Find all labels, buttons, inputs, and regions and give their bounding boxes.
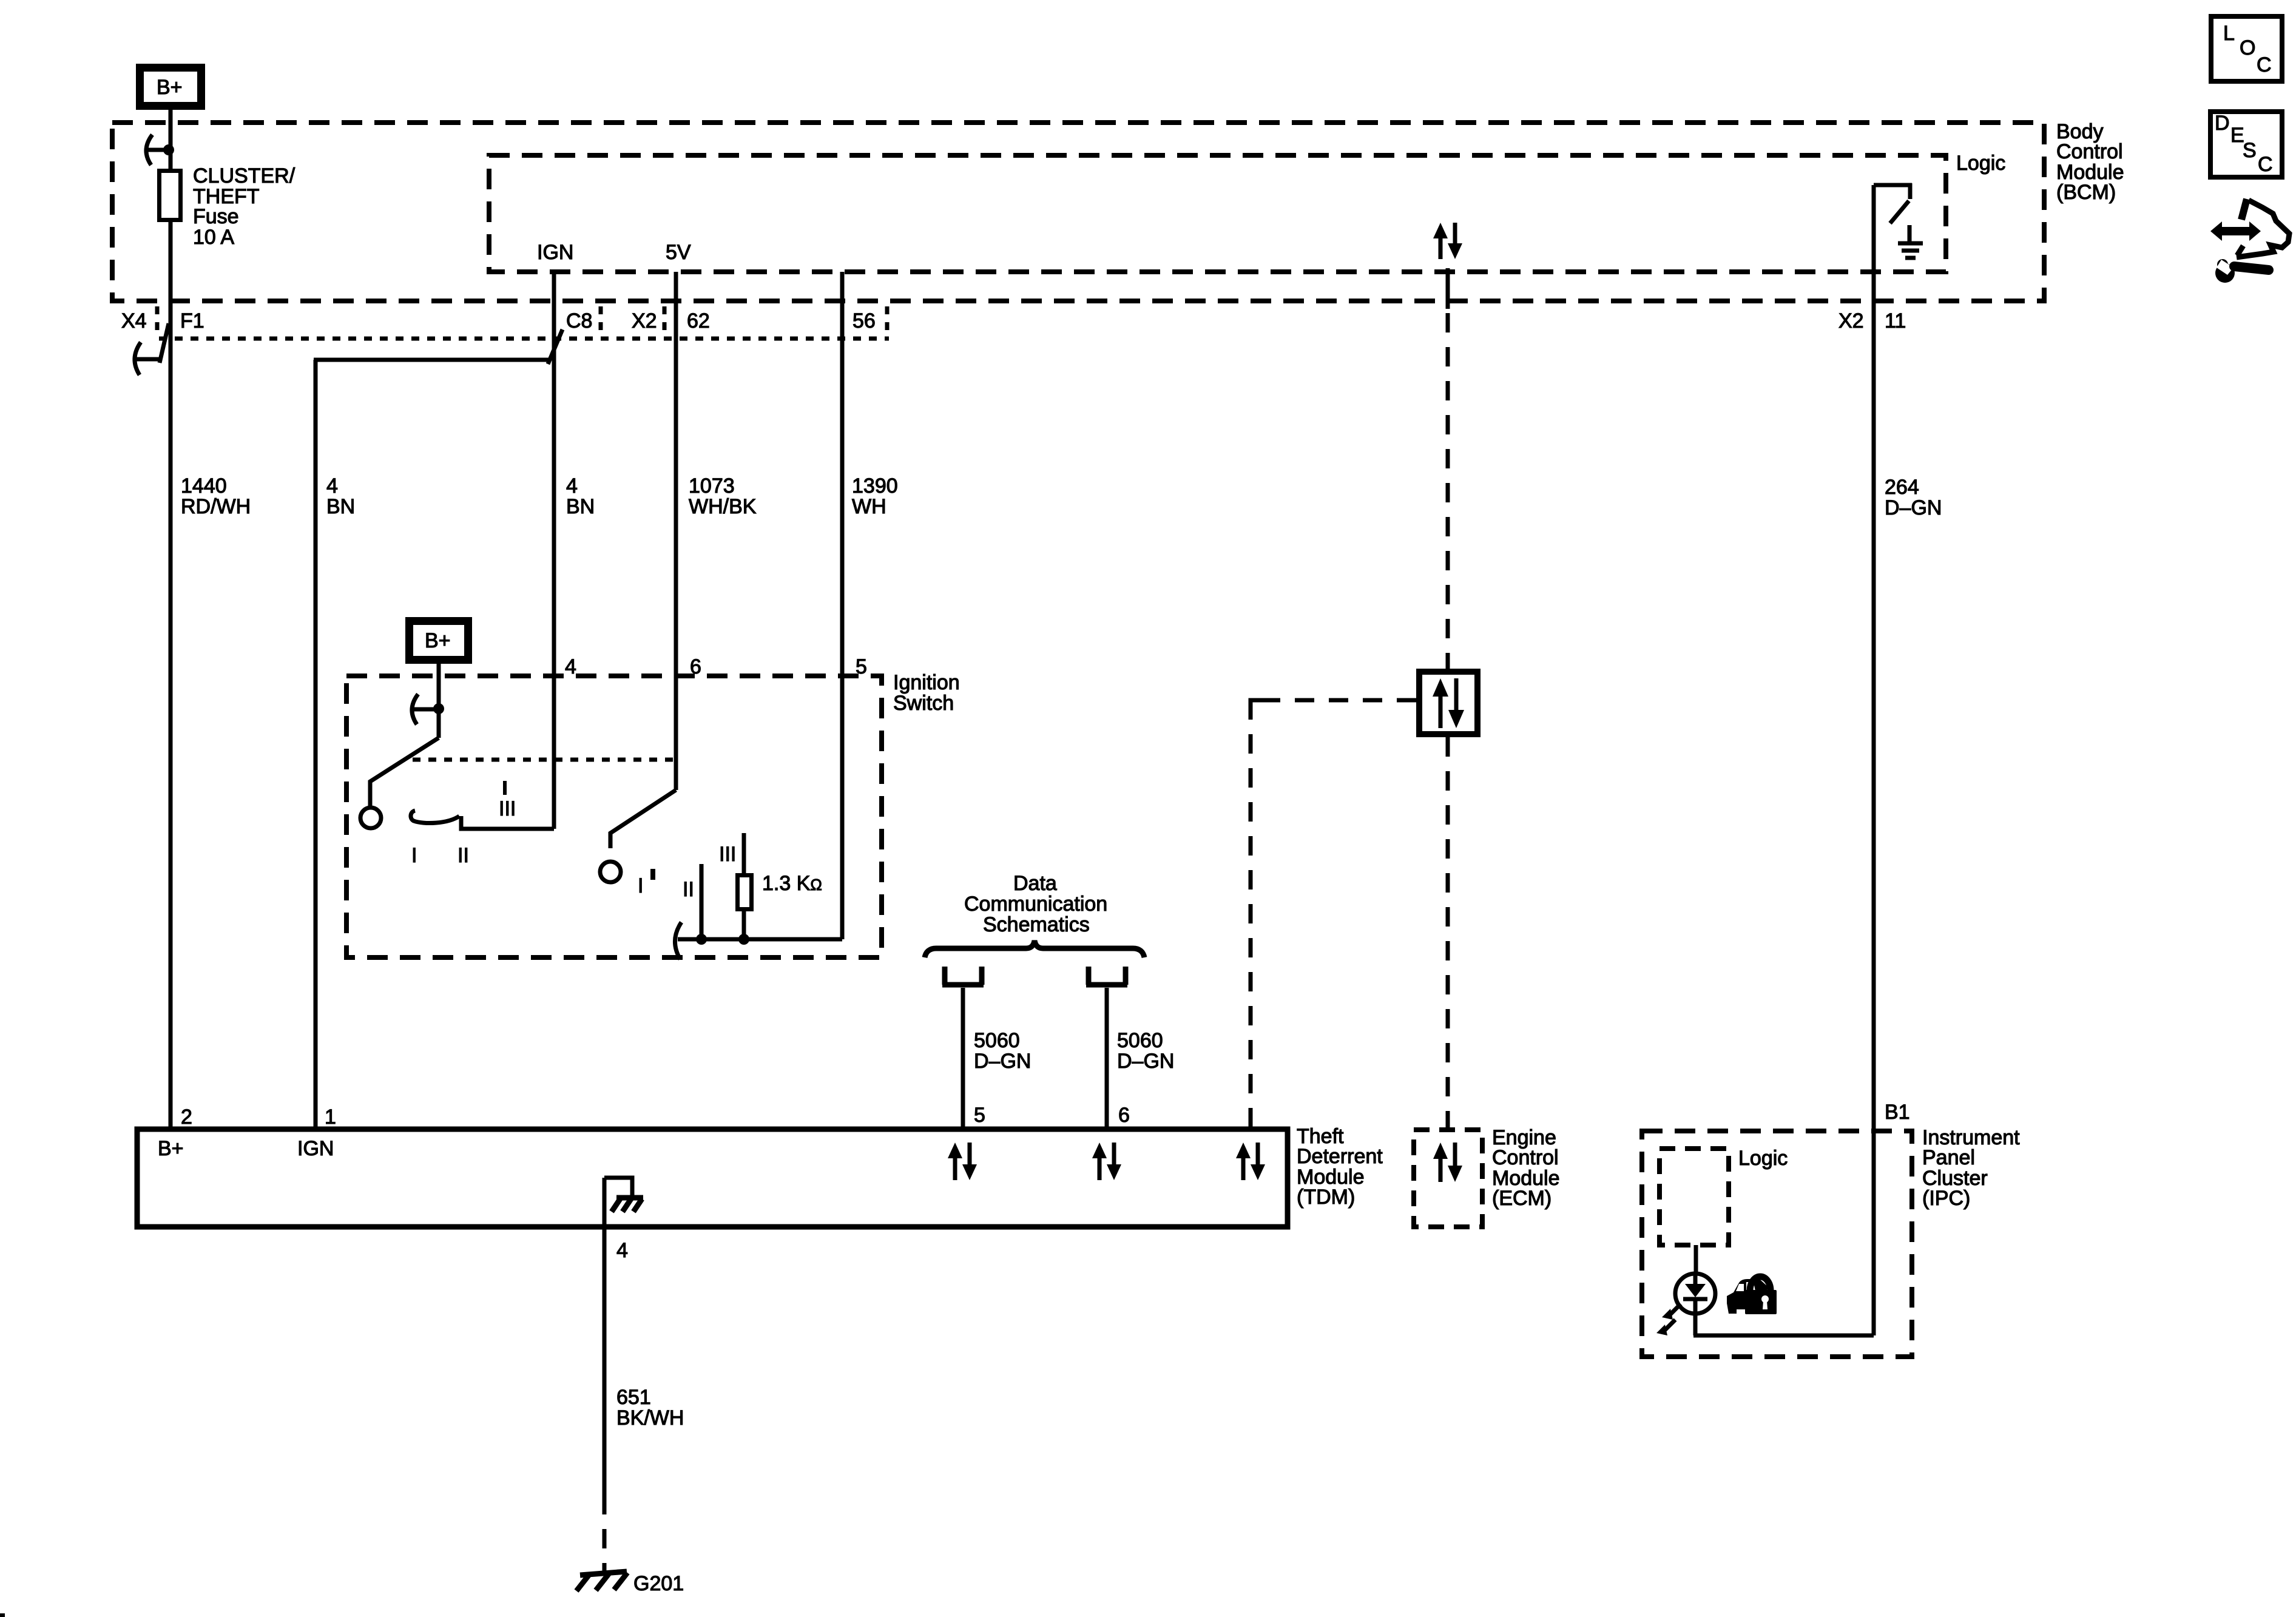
- svg-text:56: 56: [853, 309, 876, 333]
- ground G201: [576, 1571, 627, 1591]
- svg-text:10 A: 10 A: [193, 226, 234, 249]
- Instrument Panel Cluster (IPC) dashed box: [1642, 1131, 1912, 1357]
- mechanical linkage dotted line: [413, 758, 676, 762]
- svg-text:II: II: [458, 844, 469, 867]
- wire position II: [700, 864, 704, 939]
- wire 5060 left to TDM pin 5: [961, 988, 965, 1129]
- svg-text:D–GN: D–GN: [1117, 1050, 1174, 1073]
- svg-text:1390: 1390: [852, 474, 898, 498]
- svg-text:(BCM): (BCM): [2056, 181, 2116, 204]
- svg-text:B+: B+: [425, 629, 451, 652]
- svg-text:(IPC): (IPC): [1922, 1187, 1970, 1210]
- svg-text:IGN: IGN: [297, 1137, 334, 1160]
- position tick (right I): [650, 869, 655, 880]
- wire label 264 D-GN: [1885, 476, 1942, 519]
- wire branch horizontal to TDM pin 1: [314, 358, 549, 362]
- wire serial data branch to TDM (dashed): [1251, 698, 1416, 703]
- svg-text:C: C: [2257, 53, 2272, 76]
- junction dot: [163, 144, 174, 155]
- svg-text:BK/WH: BK/WH: [616, 1406, 684, 1430]
- svg-text:BN: BN: [326, 495, 355, 518]
- label Body Control Module (BCM): [2056, 120, 2124, 204]
- connector separator X4/F1: [155, 306, 160, 336]
- B+ power symbol (top left): [140, 68, 201, 106]
- wire label 5060 D-GN (right): [1117, 1029, 1174, 1073]
- svg-text:B+: B+: [158, 1137, 184, 1160]
- wire B+ into ignition switch: [437, 664, 441, 738]
- BCM connector row dotted line: [159, 337, 889, 341]
- wire gateway to ECM (dashed): [1446, 737, 1450, 1130]
- svg-text:IGN: IGN: [537, 241, 573, 264]
- DESC navigation box: [2210, 112, 2282, 177]
- svg-text:CLUSTER/: CLUSTER/: [193, 164, 295, 187]
- hand with arrow and wrench icon: [2210, 199, 2289, 283]
- serial data arrows (ECM): [1433, 1143, 1462, 1182]
- svg-text:Control: Control: [1492, 1146, 1559, 1169]
- car with padlock icon (security indicator): [1727, 1277, 1777, 1314]
- connector hook (ignition B+): [412, 694, 418, 724]
- svg-text:6: 6: [690, 655, 701, 678]
- svg-text:Switch: Switch: [893, 692, 954, 715]
- wire tick at hook: [413, 707, 434, 712]
- svg-text:D–GN: D–GN: [974, 1050, 1031, 1073]
- wire label 4 BN (left): [326, 474, 355, 518]
- wire 5V / 62 / ignition pin 6 (circuit 1073): [674, 272, 678, 790]
- connector separator right of 56: [885, 306, 890, 336]
- junction wire (ignition common): [678, 937, 842, 942]
- svg-text:C: C: [2258, 153, 2273, 176]
- B+ power symbol (ignition switch): [410, 621, 468, 660]
- svg-text:WH: WH: [852, 495, 886, 518]
- Ignition Switch dashed box: [346, 676, 882, 957]
- wire label 4 BN (right): [566, 474, 595, 518]
- wire fuse to TDM pin 2 (circuit 1440): [169, 222, 173, 1129]
- svg-text:X2: X2: [632, 309, 657, 333]
- Body Control Module (BCM) dashed box: [112, 123, 2044, 301]
- svg-text:Deterrent: Deterrent: [1297, 1145, 1383, 1168]
- svg-text:5060: 5060: [974, 1029, 1020, 1052]
- wire BCM pin 11 / 264 D-GN / IPC B1: [1872, 185, 1876, 1335]
- LED light arrows: [1656, 1304, 1681, 1335]
- wire 5060 right to TDM pin 6: [1105, 988, 1109, 1129]
- LOC navigation box: [2211, 16, 2282, 81]
- svg-text:62: 62: [687, 309, 710, 333]
- svg-text:D–GN: D–GN: [1885, 496, 1942, 519]
- svg-text:X4: X4: [121, 309, 147, 333]
- junction dot: [433, 703, 444, 714]
- svg-text:G201: G201: [633, 1572, 684, 1595]
- svg-text:O: O: [2240, 36, 2255, 59]
- connector slash at C8: [548, 329, 562, 364]
- wire tick at F1 hook: [136, 357, 159, 362]
- svg-text:Control: Control: [2056, 140, 2123, 163]
- position arc I-II: [411, 811, 459, 823]
- serial data arrows (gateway): [1433, 678, 1464, 728]
- label Data Communication Schematics: [964, 872, 1107, 936]
- svg-text:III: III: [499, 797, 516, 820]
- serial data arrows (TDM pin 5): [948, 1143, 977, 1180]
- wire logic to LED: [1694, 1245, 1698, 1273]
- svg-text:S: S: [2243, 139, 2257, 162]
- svg-text:264: 264: [1885, 476, 1919, 499]
- Engine Control Module (ECM) dashed box: [1414, 1130, 1482, 1227]
- svg-text:F1: F1: [180, 309, 204, 333]
- serial data arrows (BCM logic): [1433, 223, 1462, 259]
- svg-text:11: 11: [1885, 309, 1906, 333]
- off-page connector (left 5060): [942, 967, 984, 985]
- svg-text:4: 4: [326, 474, 338, 498]
- svg-text:4: 4: [616, 1239, 628, 1262]
- label Engine Control Module (ECM): [1492, 1126, 1560, 1210]
- svg-text:Fuse: Fuse: [193, 205, 239, 228]
- svg-text:L: L: [2223, 22, 2235, 45]
- wire IGN / C8 / ignition pin 4 (circuit 4): [552, 272, 556, 829]
- svg-text:D: D: [2215, 112, 2230, 135]
- svg-text:5V: 5V: [666, 241, 691, 264]
- serial data arrows (TDM right): [1236, 1143, 1265, 1180]
- junction dot III: [738, 934, 749, 945]
- connector hook (ignition common): [675, 922, 681, 959]
- wire arc end to pin 4: [461, 816, 554, 829]
- svg-text:Logic: Logic: [1956, 152, 2005, 175]
- connector separator C8/X2: [599, 306, 603, 336]
- svg-text:C8: C8: [566, 309, 592, 333]
- svg-text:1440: 1440: [181, 474, 227, 498]
- brace (data communication): [925, 940, 1144, 957]
- wire position III to resistor: [742, 833, 746, 873]
- svg-text:II: II: [683, 878, 694, 901]
- connector hook at fuse input: [146, 135, 152, 165]
- svg-text:651: 651: [616, 1386, 651, 1409]
- connector separator X2/62: [663, 306, 667, 336]
- svg-text:BN: BN: [566, 495, 595, 518]
- ignition switch arm (right, 5V): [610, 790, 676, 848]
- svg-text:4: 4: [566, 474, 578, 498]
- svg-text:I: I: [638, 874, 643, 897]
- svg-text:5: 5: [856, 655, 867, 678]
- svg-text:Communication: Communication: [964, 893, 1107, 916]
- svg-text:RD/WH: RD/WH: [181, 495, 251, 518]
- wire 4 BN down to TDM pin 1: [314, 360, 318, 1129]
- wire label 651 BK/WH: [616, 1386, 684, 1430]
- wire 56 / ignition pin 5 (circuit 1390): [840, 272, 845, 939]
- svg-text:Panel: Panel: [1922, 1146, 1975, 1169]
- svg-text:I: I: [411, 844, 417, 867]
- wire dashed to G201: [603, 1495, 607, 1553]
- wire resistor to junction: [742, 911, 746, 939]
- ignition switch arm (left, battery feed): [370, 738, 439, 806]
- serial data gateway box: [1419, 672, 1477, 734]
- connector hook at F1: [135, 342, 141, 375]
- IPC Logic dashed box: [1660, 1149, 1729, 1245]
- resistor 1.3 KOhm: [738, 876, 752, 910]
- svg-text:2: 2: [181, 1106, 192, 1129]
- svg-text:Schematics: Schematics: [983, 913, 1090, 936]
- corner artifact mark: [0, 1613, 5, 1617]
- svg-text:(ECM): (ECM): [1492, 1187, 1551, 1210]
- svg-text:1.3 KΩ: 1.3 KΩ: [762, 872, 822, 895]
- wire label 1390 WH: [852, 474, 898, 518]
- ground (BCM internal): [1898, 225, 1923, 258]
- off-page connector (right 5060): [1086, 967, 1127, 985]
- contact circle (right switch): [600, 862, 621, 882]
- label Theft Deterrent Module (TDM): [1297, 1125, 1383, 1209]
- wire label 5060 D-GN (left): [974, 1029, 1031, 1073]
- Theft Deterrent Module (TDM) box: [137, 1129, 1288, 1227]
- wire tick to hook: [147, 148, 169, 152]
- svg-text:1073: 1073: [689, 474, 735, 498]
- LED indicator (security telltale): [1675, 1274, 1715, 1314]
- contact circle (left switch): [360, 808, 381, 828]
- fuse CLUSTER/THEFT 10A: [160, 171, 181, 220]
- wire B+ to fuse: [169, 110, 173, 169]
- wire label 1440 RD/WH: [181, 474, 251, 518]
- label CLUSTER/THEFT Fuse 10 A: [193, 164, 295, 249]
- BCM Logic dashed box: [489, 155, 1946, 272]
- svg-text:WH/BK: WH/BK: [689, 495, 757, 518]
- svg-text:5060: 5060: [1117, 1029, 1163, 1052]
- position tick (left III): [503, 781, 507, 795]
- wire TDM ground to pin 4 / G201 (circuit 651): [603, 1178, 607, 1495]
- serial data arrows (TDM pin 6): [1092, 1143, 1121, 1180]
- svg-text:Logic: Logic: [1738, 1147, 1788, 1170]
- connector slash at F1: [160, 323, 169, 363]
- wire LED to B1: [1693, 1314, 1874, 1335]
- wire label 1073 WH/BK: [689, 474, 757, 518]
- svg-text:Data: Data: [1013, 872, 1057, 895]
- ground (TDM internal chassis): [604, 1178, 643, 1212]
- svg-text:6: 6: [1118, 1104, 1130, 1127]
- BCM internal switch to ground (pin 11 driver): [1874, 183, 1912, 223]
- svg-text:B+: B+: [157, 76, 183, 99]
- label Instrument Panel Cluster (IPC): [1922, 1126, 2020, 1210]
- svg-text:1: 1: [325, 1106, 336, 1129]
- svg-text:III: III: [719, 843, 736, 866]
- wire serial data BCM to gateway (dashed): [1446, 268, 1450, 309]
- svg-text:4: 4: [565, 655, 576, 678]
- label Ignition Switch: [893, 671, 960, 715]
- svg-text:5: 5: [974, 1104, 985, 1127]
- svg-text:B1: B1: [1885, 1101, 1910, 1124]
- svg-text:X2: X2: [1838, 309, 1864, 333]
- svg-text:Ignition: Ignition: [893, 671, 960, 694]
- svg-text:(TDM): (TDM): [1297, 1186, 1355, 1209]
- junction dot II: [696, 934, 707, 945]
